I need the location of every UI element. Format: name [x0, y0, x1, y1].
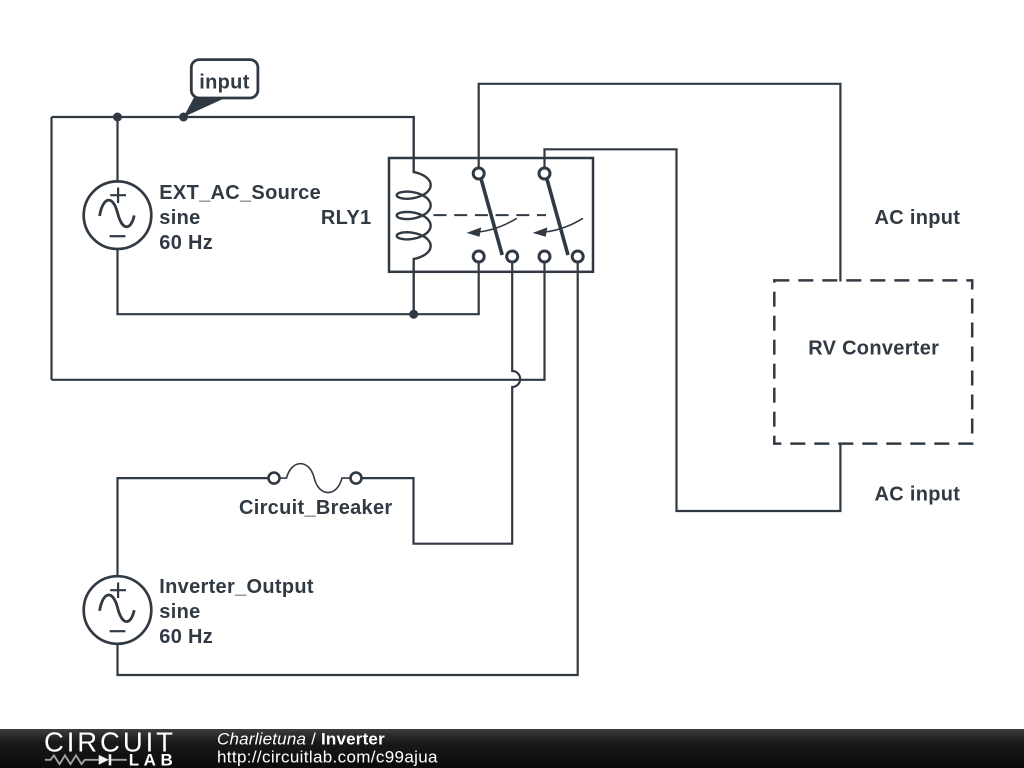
node "input" flag tail — [184, 97, 225, 118]
relay RLY1 switch 1 bottom-left pin — [473, 251, 484, 262]
junction node on top wire at EXT source — [113, 113, 122, 122]
wire circuit breaker left terminal to Inverter_Output top — [118, 478, 269, 577]
svg-text:http://circuitlab.com/c99ajua: http://circuitlab.com/c99ajua — [217, 748, 438, 767]
svg-text:AC input: AC input — [875, 207, 961, 229]
wire lower-left horizontal to relay S2 bottom-left pin — [52, 262, 545, 380]
voltage source V1 sine glyph — [100, 200, 135, 227]
voltage source V2 sine glyph — [100, 595, 135, 622]
junction node on bottom wire (coil return) — [409, 310, 418, 319]
voltage source V2 plus sign — [110, 583, 126, 599]
svg-text:sine: sine — [159, 601, 200, 623]
wire relay S1 top pin to RV converter top (AC input) — [479, 84, 841, 282]
svg-text:Inverter_Output: Inverter_Output — [159, 576, 314, 598]
voltage source V1 minus sign — [110, 235, 126, 237]
footer bar — [0, 729, 1024, 768]
relay RLY1 switch 2 blade — [547, 178, 569, 256]
wire relay S2 top pin to RV converter bottom (AC input) — [545, 149, 841, 511]
voltage source V1 EXT_AC_Source circle — [84, 181, 152, 249]
circuit breaker CB1 left terminal — [269, 473, 280, 484]
wire relay S1 bottom-right pin to circuit breaker right terminal, with hop — [362, 262, 521, 544]
relay RLY1 actuation dashed link — [434, 214, 547, 216]
relay RLY1 switch 2 top pin — [539, 168, 550, 179]
relay RLY1 switch 1 top pin — [473, 168, 484, 179]
node "input" flag pointer dot — [179, 113, 188, 122]
circuit breaker CB1 wavy element — [280, 464, 351, 493]
wire top horizontal from left corner to coil top — [52, 116, 416, 118]
svg-text:input: input — [199, 72, 249, 94]
relay RLY1 coil L1 — [397, 117, 431, 314]
relay RLY1 switch 1 throw arrow — [467, 218, 517, 237]
relay RLY1 switch 2 throw arrow — [533, 218, 583, 237]
svg-text:Charlietuna / Inverter: Charlietuna / Inverter — [217, 730, 385, 749]
voltage source V2 Inverter_Output circle — [84, 576, 152, 644]
wire left vertical outer — [50, 117, 52, 380]
voltage source V1 plus sign — [110, 188, 126, 204]
relay RLY1 switch 1 blade — [481, 178, 503, 256]
svg-text:RV Converter: RV Converter — [808, 338, 939, 360]
svg-text:Circuit_Breaker: Circuit_Breaker — [239, 497, 392, 519]
relay RLY1 switch 2 bottom-left pin — [539, 251, 550, 262]
RV Converter dashed box — [774, 280, 972, 443]
wire EXT_AC_Source bottom lead to relay S1 bottom-left pin — [118, 250, 479, 315]
svg-text:sine: sine — [159, 207, 200, 229]
node "input" flag box — [191, 60, 258, 98]
relay RLY1 switch 2 bottom-right pin — [572, 251, 583, 262]
svg-text:60 Hz: 60 Hz — [159, 232, 213, 254]
circuit breaker CB1 right terminal — [351, 473, 362, 484]
wire EXT_AC_Source top lead — [116, 117, 118, 182]
svg-text:60 Hz: 60 Hz — [159, 626, 213, 648]
svg-text:LAB: LAB — [129, 750, 177, 768]
wire Inverter_Output bottom lead to relay S2 bottom-right pin — [118, 262, 578, 675]
CircuitLab logo resistor-diode glyph — [45, 754, 127, 765]
relay RLY1 switch 1 bottom-right pin — [507, 251, 518, 262]
svg-text:AC input: AC input — [875, 484, 961, 506]
relay RLY1 body box — [389, 158, 593, 272]
voltage source V2 minus sign — [110, 630, 126, 632]
svg-text:EXT_AC_Source: EXT_AC_Source — [159, 182, 321, 204]
svg-text:RLY1: RLY1 — [321, 207, 372, 229]
